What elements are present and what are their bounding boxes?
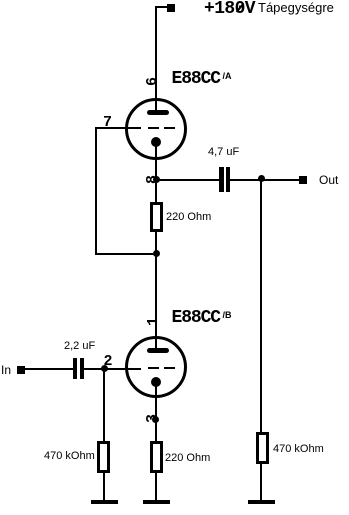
net label +180V (204, 0, 255, 18)
wire: R4 to ground (260, 464, 262, 500)
anode U1 plate bar (147, 110, 169, 115)
wire: node down to U2 anode (155, 253, 157, 350)
anode U2 plate bar (147, 348, 169, 353)
tube U2 E88CC/B envelope (125, 336, 187, 398)
pin 8 label U1 cathode (145, 174, 160, 183)
pin 3 label U2 cathode (145, 413, 160, 422)
node U1 cathode / output junction (153, 176, 160, 183)
terminal In (17, 366, 25, 374)
resistor R3 220 Ohm (150, 441, 163, 473)
tube U1 E88CC/A envelope (125, 98, 187, 160)
wire: U1 grid horizontal (95, 127, 141, 129)
capacitor C2 value label 4,7 uF (208, 147, 239, 158)
node output to R4 (258, 175, 265, 182)
ground for R1 (91, 500, 118, 504)
wire: node down to R1 (103, 368, 105, 441)
grid U2 dash 1 (148, 367, 159, 369)
tube U1 type label E88CC (172, 70, 221, 88)
tube U2 type label E88CC (172, 309, 221, 327)
wire: U1 cathode down to R2 (155, 142, 157, 203)
node SRPP midpoint (153, 250, 160, 257)
wire: R3 to ground (155, 473, 157, 500)
capacitor C1 value label 2,2 uF (64, 341, 95, 352)
tube U1 section label /A (223, 72, 232, 81)
wire: R1 to ground (103, 473, 105, 500)
capacitor C1 plate 1 (73, 358, 77, 379)
pin 2 label U2 grid (104, 354, 113, 369)
wire: U2 cathode down (155, 382, 157, 441)
ground for R3 (143, 500, 170, 504)
capacitor C1 plate 2 (80, 358, 84, 379)
resistor R1 470 kOhm (97, 441, 110, 473)
wire: C2 to Out terminal (230, 179, 299, 181)
terminal Out (299, 176, 307, 184)
grid U2 dash 2 (164, 367, 175, 369)
resistor R2 value label (166, 212, 211, 223)
wire: B+ vertical to U1 anode (155, 6, 157, 112)
grid U1 dash 1 (148, 127, 159, 129)
label Out (319, 174, 338, 186)
node pin 3 (152, 416, 159, 423)
resistor R3 value label (165, 453, 210, 464)
capacitor C2 plate 1 (219, 167, 224, 192)
wire: In terminal to C1 (25, 368, 73, 370)
resistor R4 value label (273, 444, 324, 455)
resistor R1 value label (44, 451, 95, 462)
wire: R2 to node (155, 232, 157, 253)
resistor R4 470 kOhm (256, 432, 269, 464)
grid U1 dash 2 (164, 127, 175, 129)
cathode U1 dot (151, 137, 161, 147)
wire: B+ horizontal to terminal (156, 6, 168, 8)
capacitor C2 plate 2 (226, 167, 231, 192)
wire: left vertical grid feedback (95, 127, 97, 255)
pin 6 label U1 anode (145, 77, 160, 86)
pin 1 label U2 anode (146, 317, 161, 326)
terminal +180V (167, 4, 175, 12)
wire: horizontal from feedback to cathode node (95, 253, 157, 255)
wire: output horizontal to C2 (156, 179, 219, 181)
pin 7 label U1 grid (103, 115, 112, 130)
net label Tapegysegre (258, 1, 334, 14)
wire: output node down to R4 (260, 180, 262, 432)
ground for R4 (248, 500, 275, 504)
tube U2 section label /B (223, 311, 232, 320)
resistor R2 220 Ohm (150, 202, 163, 232)
node grid to R1 (101, 365, 108, 372)
net label +180V slashed zero (236, 4, 243, 12)
label In (1, 364, 11, 376)
cathode U2 dot (151, 377, 161, 387)
wire: C1 to U2 grid (84, 368, 141, 370)
